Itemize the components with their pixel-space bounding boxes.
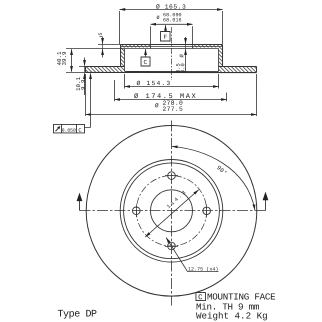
svg-text:Ø 165.3: Ø 165.3 [156,2,186,10]
svg-text:C: C [144,59,148,66]
svg-text:68.016: 68.016 [163,17,182,23]
svg-text:114.3: 114.3 [166,188,189,210]
svg-text:Ø: Ø [178,54,185,58]
svg-text:Ø 154.3: Ø 154.3 [137,79,172,87]
svg-text:277.5: 277.5 [163,106,184,113]
svg-text:39.9: 39.9 [61,51,68,65]
svg-text:9.9: 9.9 [80,79,87,90]
svg-text:Ø: Ø [155,102,159,109]
svg-text:Type DP: Type DP [57,309,97,320]
svg-text:0.050: 0.050 [62,128,76,134]
svg-text:12.75 (x4): 12.75 (x4) [188,267,219,273]
svg-text:3.0: 3.0 [180,63,186,73]
svg-text:5: 5 [98,32,104,35]
svg-text:Ø: Ø [157,14,160,21]
svg-text:F: F [164,34,168,41]
svg-text:Weight 4.2 Kg: Weight 4.2 Kg [196,311,268,322]
